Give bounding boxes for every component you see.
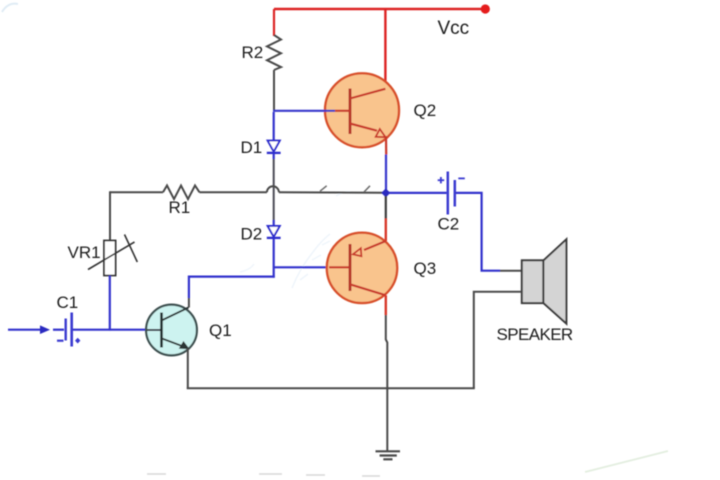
wire to speaker box (dark): [500, 270, 522, 272]
wire C2 to speaker top (blue): [456, 193, 500, 271]
svg-text:Vcc: Vcc: [438, 18, 470, 39]
faint watermark scribble top-left: [2, 4, 18, 12]
wire ground rail (dark): [187, 387, 475, 389]
svg-text:R1: R1: [169, 198, 191, 217]
svg-text:SPEAKER: SPEAKER: [497, 325, 573, 344]
wire ground stem: [386, 388, 388, 451]
wire output node to C2 (blue): [389, 192, 447, 194]
transistor Q1: [146, 305, 197, 356]
wire Q1 emitter down (dark): [187, 348, 189, 389]
svg-text:Q3: Q3: [414, 259, 437, 278]
wire red stub from rail to R2: [273, 9, 275, 36]
wire Q2 collector from rail (red): [384, 9, 386, 89]
diode D2: [267, 226, 281, 238]
wire D2 down to corners (blue): [273, 239, 275, 278]
svg-text:VR1: VR1: [68, 243, 101, 262]
wire Q1 collector (dark): [188, 298, 190, 308]
resistor R2: [267, 35, 281, 70]
speaker: [522, 239, 567, 323]
capacitor C2: [438, 172, 465, 215]
wire VR1 to input node (blue): [109, 276, 111, 331]
diode D1: [267, 112, 281, 159]
wire junction down (dark then red) to Q3: [385, 196, 387, 219]
wire to Q1 collector (blue): [189, 277, 275, 298]
wire C1 to Q1 base (blue): [73, 329, 147, 331]
wire Q2 emitter to output node (blue): [385, 155, 387, 192]
wire speaker bottom (dark): [474, 292, 522, 389]
svg-text:D1: D1: [241, 138, 263, 157]
wire Q2 base (blue over circle edge): [273, 110, 335, 112]
tick marks on wire: [320, 186, 327, 191]
svg-text:Q1: Q1: [209, 321, 232, 340]
svg-text:R2: R2: [242, 43, 264, 62]
wire D1 to D2 through crossover (dark): [273, 159, 275, 220]
svg-text:C2: C2: [438, 215, 460, 234]
node Vcc terminal dot: [481, 4, 490, 13]
faint watermark scribbles center: [240, 192, 350, 288]
variable resistor VR1: [88, 235, 137, 276]
wire VR1 top feed (dark): [109, 191, 111, 241]
transistor Q2: [325, 73, 399, 154]
svg-text:Q2: Q2: [414, 101, 437, 120]
resistor R1 and feedback wire: [110, 186, 384, 200]
wire Q2 base red segment: [335, 110, 350, 112]
faint bottom dashes: [147, 474, 380, 476]
wire R2 bottom to base node: [273, 70, 275, 111]
node output junction: [381, 188, 390, 197]
faint diagonal mark bottom-right: [585, 451, 668, 472]
wire Q3 collector down (red then dark): [385, 295, 387, 315]
transistor Q3: [327, 233, 397, 303]
input arrow: [8, 325, 50, 334]
wire Vcc rail (red, top): [274, 8, 485, 10]
svg-text:D2: D2: [241, 225, 263, 244]
wire branch to Q3 base (blue): [274, 266, 329, 268]
svg-text:C1: C1: [57, 293, 79, 312]
ground: [376, 451, 401, 459]
capacitor C1: [53, 313, 80, 347]
